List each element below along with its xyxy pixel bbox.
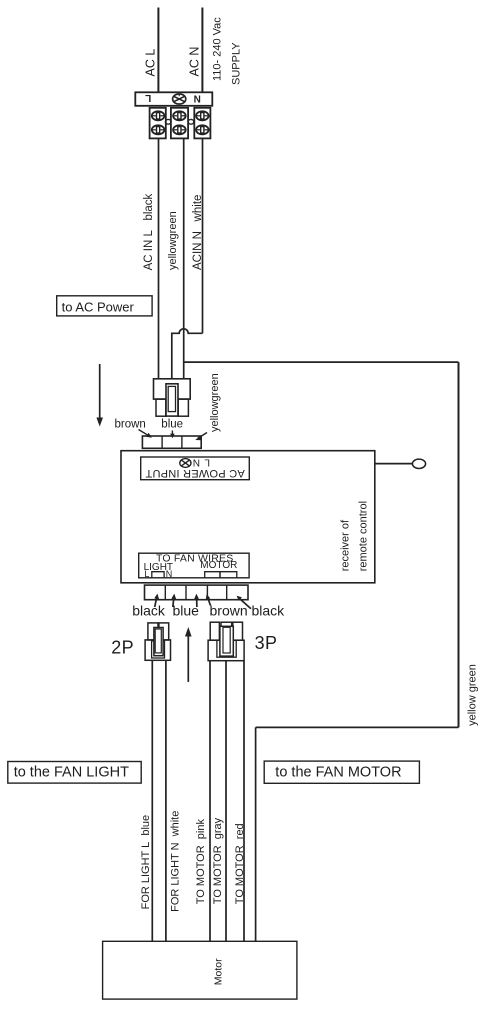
svg-text:SUPPLY: SUPPLY bbox=[231, 42, 243, 85]
svg-text:TO MOTOR gray: TO MOTOR gray bbox=[212, 817, 224, 904]
AC plug prong left bbox=[156, 399, 166, 416]
svg-text:AC L: AC L bbox=[144, 49, 158, 77]
wire FOR LIGHT N white bbox=[165, 660, 167, 941]
terminal strip cover bar bbox=[135, 92, 212, 106]
svg-text:brown: brown bbox=[115, 419, 146, 431]
wire ACIN N white jog with hop over yellowgreen bbox=[172, 329, 203, 379]
svg-text:FOR LIGHT L blue: FOR LIGHT L blue bbox=[140, 815, 152, 910]
to AC Power box bbox=[57, 296, 152, 316]
antenna tip bbox=[412, 459, 425, 468]
antenna wire bbox=[375, 463, 413, 465]
svg-text:receiver of: receiver of bbox=[340, 519, 352, 571]
svg-text:blue: blue bbox=[173, 603, 200, 619]
terminal cover screw bbox=[173, 94, 186, 104]
svg-text:blue: blue bbox=[161, 419, 183, 431]
terminal block column 1 bbox=[150, 108, 166, 139]
terminal screw 4 bbox=[173, 125, 186, 134]
svg-text:FOR LIGHT N white: FOR LIGHT N white bbox=[170, 811, 182, 912]
terminal screw 6 bbox=[196, 125, 209, 134]
wire TO MOTOR gray bbox=[225, 661, 227, 942]
to the FAN MOTOR box bbox=[264, 761, 419, 783]
svg-text:yellowgreen: yellowgreen bbox=[167, 211, 179, 270]
arrow to cell 3 bbox=[196, 598, 198, 607]
svg-text:110- 240 Vac: 110- 240 Vac bbox=[212, 17, 224, 81]
svg-text:AC IN L black: AC IN L black bbox=[143, 193, 155, 270]
svg-text:to the FAN MOTOR: to the FAN MOTOR bbox=[275, 765, 401, 781]
AC plug latch bbox=[166, 384, 178, 416]
svg-text:L: L bbox=[144, 569, 149, 579]
wire yellow green bottom horizontal bbox=[256, 726, 459, 728]
svg-text:ACIN N white: ACIN N white bbox=[192, 195, 204, 270]
wire ACIN N white vertical bbox=[202, 138, 204, 333]
svg-text:N: N bbox=[166, 569, 173, 579]
svg-text:remote control: remote control bbox=[358, 501, 370, 571]
wire yellowgreen branch to right bbox=[184, 361, 459, 363]
terminal screw 1 bbox=[152, 111, 165, 120]
svg-text:TO MOTOR red: TO MOTOR red bbox=[234, 823, 246, 904]
svg-text:AC POWER INPUT: AC POWER INPUT bbox=[145, 467, 244, 479]
svg-text:MOTOR: MOTOR bbox=[200, 560, 237, 571]
receiver box bbox=[121, 451, 375, 583]
svg-text:to the FAN LIGHT: to the FAN LIGHT bbox=[14, 765, 129, 781]
wire yellow green down to motor bbox=[255, 727, 257, 941]
svg-text:N: N bbox=[194, 95, 201, 106]
svg-text:black: black bbox=[132, 603, 166, 619]
svg-text:N: N bbox=[193, 456, 200, 467]
svg-text:Motor: Motor bbox=[212, 958, 224, 985]
svg-text:L: L bbox=[145, 92, 151, 103]
AC input socket (3 cells) bbox=[142, 436, 201, 448]
wire FOR LIGHT L blue bbox=[151, 660, 153, 941]
motor connector footprint bbox=[205, 572, 220, 578]
wire TO MOTOR pink bbox=[209, 661, 211, 942]
to the FAN LIGHT box bbox=[8, 762, 141, 784]
wire yellow green right-side vertical bbox=[458, 362, 460, 727]
jumper hole B bbox=[188, 119, 194, 124]
2P plug bbox=[145, 623, 170, 660]
wire AC L (top supply line) bbox=[157, 8, 159, 93]
wire yellowgreen vertical bbox=[183, 138, 185, 378]
terminal block column 3 bbox=[194, 108, 210, 139]
wire AC IN L black bbox=[158, 138, 160, 378]
svg-text:L: L bbox=[204, 456, 210, 467]
svg-text:to AC Power: to AC Power bbox=[62, 299, 135, 314]
svg-text:yellow green: yellow green bbox=[466, 664, 478, 726]
terminal block column 2 bbox=[171, 108, 188, 139]
svg-text:brown: brown bbox=[210, 603, 248, 619]
fan wires socket (5 cells) bbox=[145, 585, 249, 600]
AC POWER INPUT block (rotated 180) bbox=[141, 456, 250, 479]
jumper hole A bbox=[165, 119, 171, 124]
plug-in arrow (up) bbox=[185, 627, 192, 682]
insertion arrow (down) bbox=[96, 364, 103, 427]
svg-text:2P: 2P bbox=[111, 637, 134, 657]
terminal screw 2 bbox=[152, 125, 165, 134]
svg-text:AC N: AC N bbox=[188, 47, 202, 77]
svg-text:3P: 3P bbox=[255, 633, 278, 653]
3P plug bbox=[208, 622, 244, 661]
terminal screw 5 bbox=[196, 111, 209, 120]
svg-text:yellowgreen: yellowgreen bbox=[209, 373, 221, 432]
TO FAN WIRES block bbox=[139, 553, 249, 578]
terminal screw 3 bbox=[173, 111, 186, 120]
wire TO MOTOR red bbox=[243, 661, 245, 942]
AC plug prong right bbox=[178, 399, 188, 416]
svg-text:TO MOTOR pink: TO MOTOR pink bbox=[195, 819, 207, 905]
wire AC N (top supply line) bbox=[201, 8, 203, 93]
svg-text:black: black bbox=[252, 603, 286, 619]
motor box bbox=[103, 941, 297, 999]
AC plug housing bbox=[154, 379, 191, 399]
